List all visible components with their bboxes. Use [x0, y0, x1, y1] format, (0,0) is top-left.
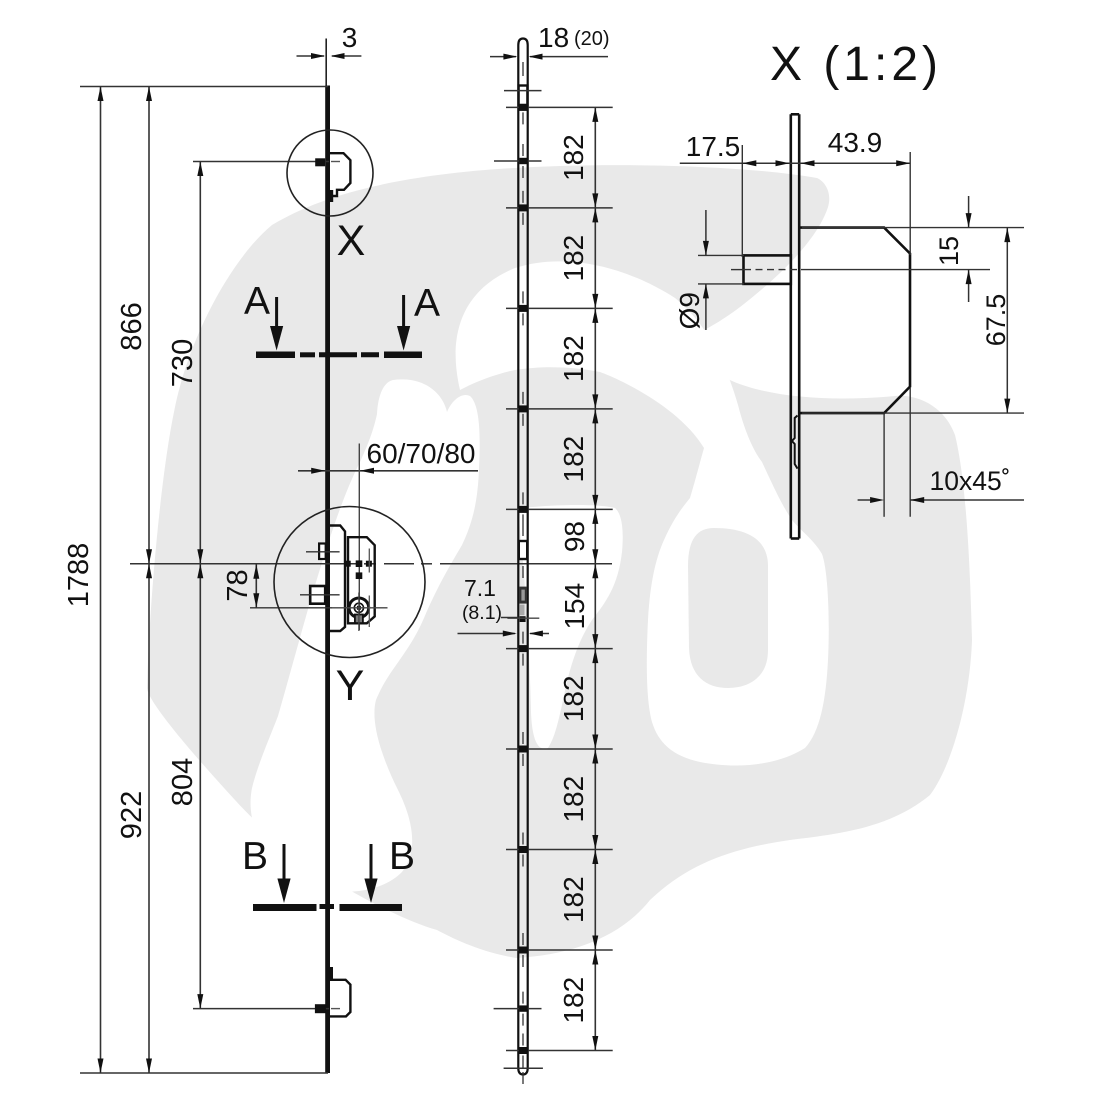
tick at cam — [504, 90, 542, 92]
ext line 804 bottom (bottom keep pin) — [193, 1008, 329, 1010]
faceplate front view (edge) — [325, 86, 330, 1074]
svg-text:60/70/80: 60/70/80 — [367, 438, 476, 469]
svg-text:15: 15 — [934, 236, 964, 266]
top extent line — [80, 86, 328, 88]
faceplate edge view — [791, 114, 799, 538]
svg-text:X: X — [337, 217, 366, 265]
keep X (top hook) — [330, 153, 350, 196]
bottom keep (hook) — [330, 980, 350, 1017]
svg-text:182: 182 — [558, 977, 589, 1024]
svg-text:182: 182 — [558, 335, 589, 382]
svg-text:154: 154 — [559, 583, 590, 630]
svg-text:A: A — [244, 280, 270, 323]
svg-text:67.5: 67.5 — [981, 294, 1011, 347]
fixing hole ticks — [494, 160, 542, 162]
pin centerline — [731, 269, 744, 271]
svg-text:730: 730 — [167, 339, 199, 387]
Y: aux vertical line x=369 — [368, 549, 370, 573]
svg-text:182: 182 — [558, 134, 589, 181]
lock body — [801, 228, 911, 414]
dim 3 line — [297, 55, 362, 57]
Y: euro cylinder — [349, 598, 369, 618]
detail circle Y — [274, 507, 425, 658]
dimension line 78 — [255, 564, 257, 608]
svg-text:10x45˚: 10x45˚ — [929, 466, 1010, 496]
dim chain 182/98/154 line — [594, 107, 596, 1050]
svg-text:182: 182 — [558, 235, 589, 282]
dimension line 866/922 — [148, 87, 150, 1074]
svg-text:17.5: 17.5 — [686, 131, 741, 162]
svg-text:B: B — [389, 835, 415, 878]
svg-text:Ø9: Ø9 — [674, 292, 705, 329]
svg-text:A: A — [414, 282, 440, 325]
svg-text:X (1:2): X (1:2) — [770, 38, 942, 91]
dimension line 730/804 — [199, 162, 201, 1009]
bottom keep nub — [330, 967, 333, 979]
svg-text:B: B — [242, 835, 268, 878]
svg-text:43.9: 43.9 — [828, 127, 883, 158]
Y: backset dots — [345, 561, 351, 567]
drive rail end notch — [792, 416, 798, 469]
Y: upper small rect — [319, 544, 326, 560]
rail dashed centerline — [522, 62, 524, 1084]
svg-text:182: 182 — [558, 436, 589, 483]
bottom extent line — [80, 1072, 328, 1074]
svg-text:182: 182 — [558, 876, 589, 923]
svg-text:(8.1): (8.1) — [462, 602, 502, 624]
extension line above plate top — [325, 39, 327, 86]
svg-text:804: 804 — [167, 758, 199, 806]
svg-text:18: 18 — [538, 22, 569, 53]
svg-text:98: 98 — [559, 521, 590, 552]
Y: spindle square — [310, 586, 325, 604]
horizontal centerline y=563.8 — [130, 563, 612, 565]
detail circle X — [287, 130, 373, 216]
top cam square on rail — [519, 86, 528, 106]
svg-text:182: 182 — [558, 776, 589, 823]
svg-text:922: 922 — [116, 791, 148, 839]
svg-text:Y: Y — [336, 662, 365, 710]
rail lines — [518, 39, 527, 1075]
rail segment boundaries: left stub + dot + right extension — [506, 107, 613, 1050]
svg-text:866: 866 — [116, 302, 148, 350]
dimension line 1788 — [100, 87, 102, 1074]
svg-text:182: 182 — [558, 675, 589, 722]
center gearbox features on rail — [519, 541, 527, 559]
Y: flange outline — [330, 526, 345, 632]
watermark logo background — [147, 165, 972, 958]
bottom keep roller pin — [315, 1004, 326, 1013]
ext line 78 bottom (cylinder axis) — [250, 607, 332, 609]
roller pin stud — [744, 255, 791, 284]
svg-text:1788: 1788 — [63, 543, 95, 608]
svg-text:3: 3 — [342, 22, 358, 53]
backset centerline — [358, 444, 360, 631]
body top/bottom extension lines — [802, 227, 1024, 229]
ext line 730 top (keep X pin) — [193, 161, 329, 163]
keep X nub — [330, 190, 333, 202]
svg-text:78: 78 — [222, 569, 254, 601]
svg-text:7.1: 7.1 — [464, 575, 496, 601]
svg-text:(20): (20) — [574, 28, 610, 50]
Y: lock case — [348, 537, 375, 623]
dim 3 arrows — [311, 53, 325, 59]
keep X roller pin — [315, 158, 325, 166]
